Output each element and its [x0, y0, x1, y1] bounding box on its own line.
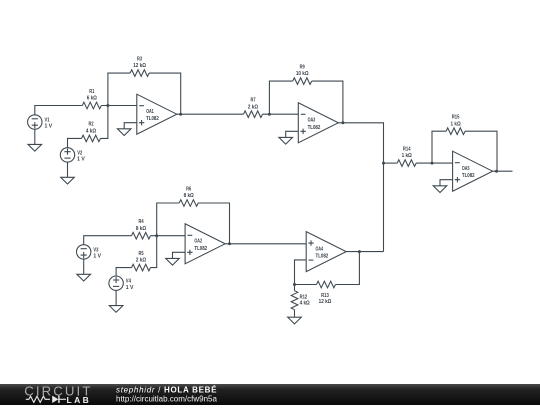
node OA5 inverting input junction: [431, 162, 434, 165]
wire OA1 non-inverting input to ground: [124, 123, 137, 129]
svg-text:4 kΩ: 4 kΩ: [300, 301, 310, 307]
node OA3 output: [341, 121, 344, 124]
wire OA2 output to OA4 non-inverting input: [225, 243, 306, 245]
node OA3 inverting input junction: [268, 113, 271, 116]
resistor R13: [317, 281, 336, 305]
svg-text:1 V: 1 V: [77, 157, 85, 163]
svg-text:TL082: TL082: [462, 173, 475, 179]
svg-text:12 kΩ: 12 kΩ: [133, 63, 146, 69]
op-amp OA4: [306, 232, 346, 272]
voltage source V4 1 V: [109, 276, 134, 291]
resistor R5: [132, 251, 151, 271]
svg-text:V4: V4: [126, 279, 131, 285]
svg-text:12 kΩ: 12 kΩ: [319, 299, 332, 305]
CircuitLab logo resistor-diode glyph: [26, 396, 66, 403]
resistor R15: [446, 115, 465, 135]
wire R4 to OA2 inverting input: [151, 235, 186, 237]
node OA1 output: [179, 113, 182, 116]
svg-text:6 kΩ: 6 kΩ: [87, 96, 97, 102]
wire feedback left R9: [269, 81, 292, 114]
op-amp OA5: [453, 151, 493, 191]
wire V1 top stub to R1: [35, 106, 83, 115]
svg-text:V1: V1: [45, 117, 50, 123]
ground below V2: [61, 177, 75, 184]
svg-text:R6: R6: [186, 186, 191, 192]
wire feedback left R15: [432, 131, 446, 163]
wire R2 to inverting node: [101, 106, 108, 139]
resistor R3: [130, 56, 149, 76]
svg-text:OA3: OA3: [308, 118, 316, 124]
svg-text:R14: R14: [403, 146, 411, 152]
svg-text:1 kΩ: 1 kΩ: [402, 153, 412, 159]
resistor R4: [132, 219, 151, 239]
svg-text:R12: R12: [300, 295, 308, 301]
footer credit line: [116, 385, 217, 394]
wire V2 top stub to R2: [68, 138, 82, 147]
svg-text:R7: R7: [250, 98, 255, 104]
wire feedback node to R12: [294, 285, 296, 291]
resistor R14: [397, 146, 416, 166]
voltage source V1 1 V: [28, 115, 53, 130]
resistor R1: [82, 89, 101, 109]
svg-text:TL082: TL082: [146, 116, 159, 122]
node OA1 inverting input junction: [106, 104, 109, 107]
wire feedback right R6 to OA2 output: [198, 203, 229, 244]
node OA2 output: [228, 242, 231, 245]
svg-text:1 V: 1 V: [93, 254, 101, 260]
svg-text:R15: R15: [452, 115, 460, 121]
svg-text:R13: R13: [321, 293, 329, 299]
node OA2 inverting input junction: [155, 234, 158, 237]
node summing bus to R14: [382, 162, 385, 165]
wire V2 to ground: [67, 162, 69, 177]
ground at OA5 non-inverting input: [433, 186, 447, 193]
svg-text:R1: R1: [89, 89, 94, 95]
svg-text:V2: V2: [77, 150, 82, 156]
svg-text:V3: V3: [93, 247, 98, 253]
node OA4 feedback junction: [293, 283, 296, 286]
ground at OA1 non-inverting input: [117, 129, 131, 136]
svg-text:R2: R2: [88, 122, 93, 128]
svg-text:OA1: OA1: [146, 109, 154, 115]
svg-text:2 kΩ: 2 kΩ: [136, 258, 146, 264]
wire R5 to inverting node: [151, 236, 157, 268]
wire V4 to ground: [115, 290, 117, 305]
resistor R2: [82, 122, 101, 142]
svg-text:OA5: OA5: [462, 166, 470, 172]
svg-text:TL082: TL082: [308, 125, 321, 131]
wire R7 to OA3 inverting input: [263, 113, 299, 115]
wire V3 top stub to R4: [84, 236, 132, 245]
footer url line: [116, 395, 217, 404]
op-amp OA3: [298, 103, 338, 143]
wire bus to R14: [384, 162, 398, 164]
svg-text:OA2: OA2: [194, 239, 202, 245]
svg-text:R3: R3: [137, 56, 142, 62]
svg-text:OA4: OA4: [316, 246, 324, 252]
ground at OA3 non-inverting input: [279, 137, 293, 144]
wire OA3 output to bus: [338, 123, 383, 252]
voltage source V2 1 V: [60, 148, 85, 163]
op-amp OA1: [137, 94, 177, 134]
svg-text:TL082: TL082: [316, 254, 329, 260]
voltage source V3 1 V: [77, 245, 102, 260]
wire V1 to ground: [34, 129, 36, 144]
wire R1 to OA1 inverting input: [101, 105, 137, 107]
node OA4 output: [358, 250, 361, 253]
svg-text:TL082: TL082: [194, 246, 207, 252]
op-amp OA2: [185, 224, 225, 264]
wire R13 to feedback node: [295, 284, 317, 286]
wire R12 to ground: [294, 310, 296, 318]
resistor R12: [291, 291, 310, 310]
wire OA1 output to R7: [177, 113, 244, 115]
CircuitLab logo text LAB: [67, 395, 92, 405]
wire feedback node to OA4 inverting input: [295, 260, 307, 285]
wire feedback right R15 to OA5 output: [465, 131, 497, 171]
wire V3 to ground: [83, 259, 85, 274]
resistor R9: [293, 64, 312, 84]
wire OA3 non-inverting input to ground: [286, 131, 299, 137]
svg-text:R9: R9: [300, 64, 305, 70]
wire feedback left R3: [108, 73, 130, 105]
wire feedback right R3 to OA1 output: [149, 73, 181, 114]
wire feedback left R6: [157, 203, 180, 236]
svg-text:1 V: 1 V: [45, 124, 53, 130]
svg-text:1 V: 1 V: [126, 285, 134, 291]
ground below R12: [288, 317, 302, 324]
svg-text:2 kΩ: 2 kΩ: [248, 104, 258, 110]
wire OA2 non-inverting input to ground: [173, 252, 186, 258]
svg-text:stephhidr / HOLA BEBÉ: stephhidr / HOLA BEBÉ: [116, 385, 217, 394]
svg-text:R4: R4: [138, 219, 143, 225]
svg-text:4 kΩ: 4 kΩ: [86, 129, 96, 135]
footer bar background: [0, 384, 540, 405]
node OA5 output: [495, 170, 498, 173]
svg-text:1 kΩ: 1 kΩ: [451, 121, 461, 127]
wire OA5 output: [493, 170, 513, 172]
wire OA4 output down to R13: [336, 252, 360, 285]
svg-text:10 kΩ: 10 kΩ: [296, 71, 309, 77]
svg-text:R5: R5: [138, 251, 143, 257]
wire OA4 output to bus: [346, 251, 383, 253]
svg-text:LAB: LAB: [67, 395, 92, 405]
wire V4 top stub to R5: [116, 268, 131, 276]
svg-text:8 kΩ: 8 kΩ: [136, 226, 146, 232]
svg-text:http://circuitlab.com/cfw9n5a: http://circuitlab.com/cfw9n5a: [116, 395, 217, 404]
svg-text:8 kΩ: 8 kΩ: [184, 193, 194, 199]
ground below V4: [109, 306, 123, 313]
ground below V1: [28, 144, 42, 151]
resistor R7: [244, 98, 263, 118]
wire OA5 non-inverting input to ground: [440, 180, 453, 186]
ground below V3: [77, 274, 91, 281]
wire R14 to OA5 inverting input: [416, 162, 452, 164]
wire feedback right R9 to OA3 output: [312, 81, 343, 123]
ground at OA2 non-inverting input: [166, 258, 180, 265]
resistor R6: [179, 186, 198, 206]
CircuitLab logo text CIRCUIT: [24, 383, 92, 398]
